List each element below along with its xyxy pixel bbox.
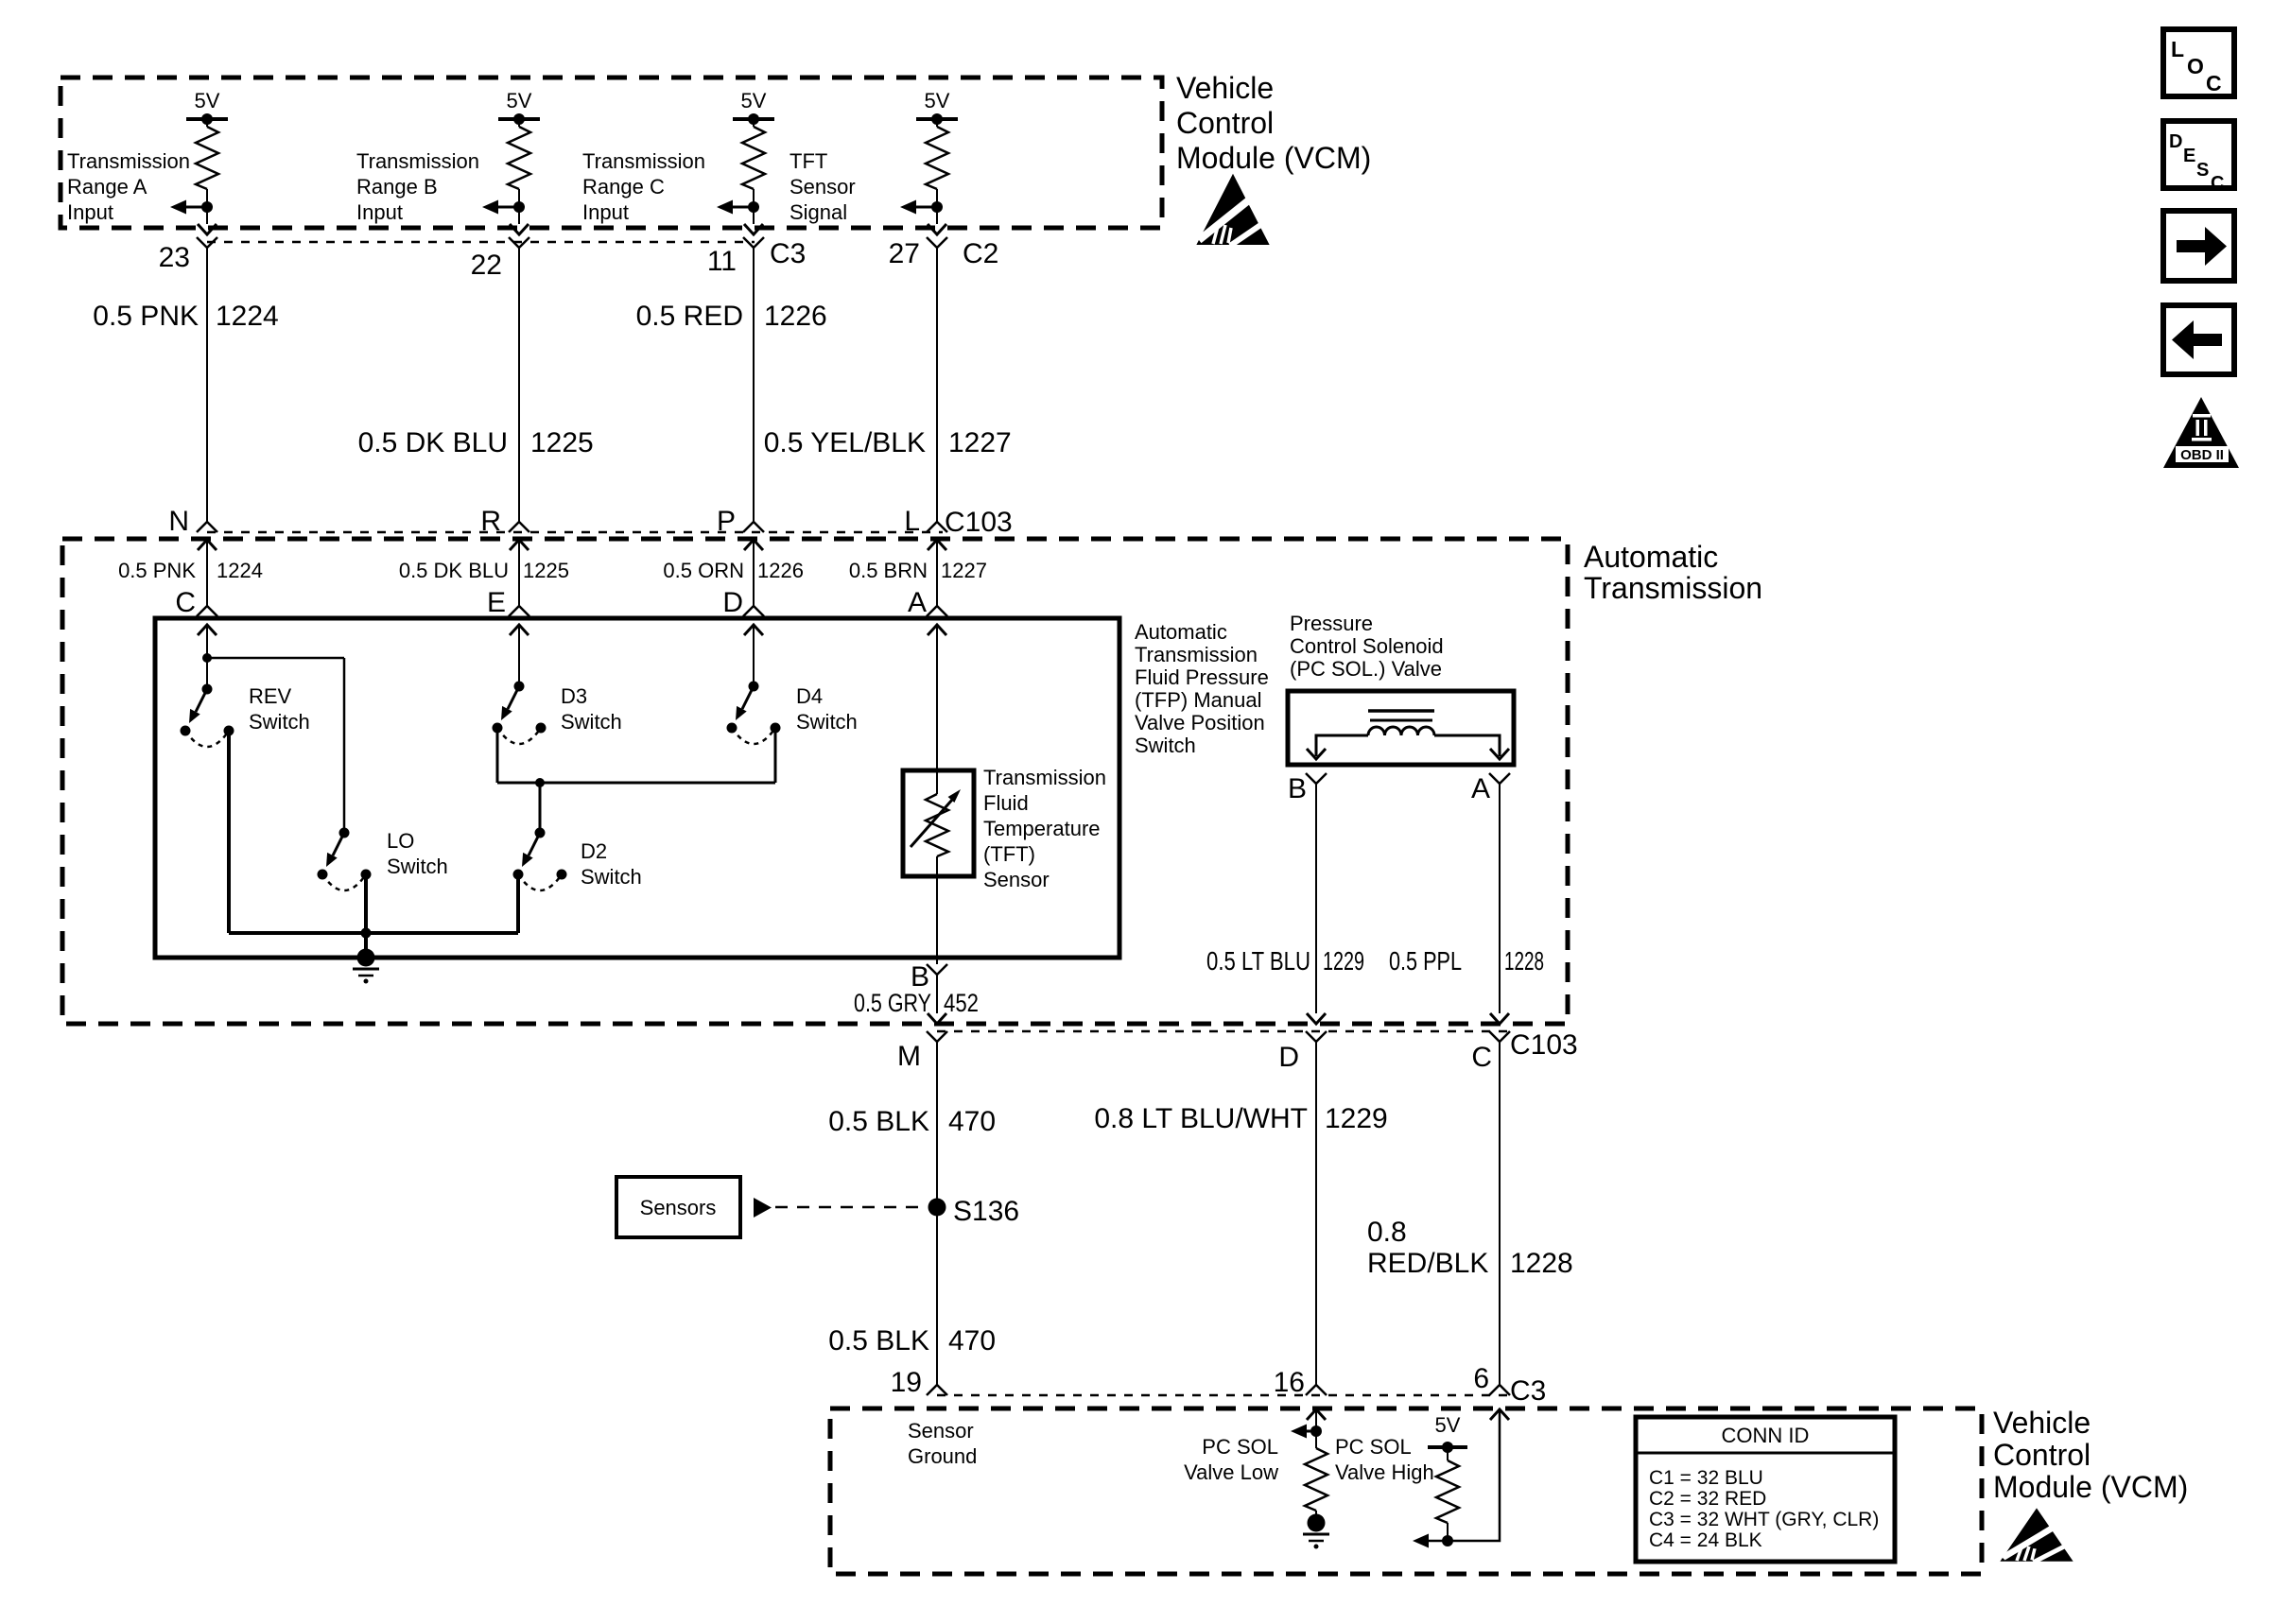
box: TFP manual valve position switch	[155, 618, 1119, 958]
pin 16 fork	[1306, 1385, 1327, 1395]
node: REV/LO feed junction	[202, 653, 212, 663]
svg-text:16: 16	[1274, 1367, 1305, 1398]
wire: 0.5 RED 1226 (VCM 11 to C103 P)	[753, 248, 755, 522]
svg-text:LO: LO	[387, 829, 414, 853]
wire arrow leaving AT at D	[1307, 1013, 1326, 1024]
svg-text:0.5 BRN: 0.5 BRN	[849, 559, 928, 582]
pin N fork	[197, 522, 217, 532]
svg-text:5V: 5V	[1435, 1413, 1461, 1437]
svg-text:Transmission: Transmission	[356, 149, 479, 173]
wire: 0.8 LT BLU/WHT 1229	[1315, 1042, 1317, 1385]
connector line: C103 upper	[207, 531, 943, 534]
svg-text:D: D	[1278, 1042, 1299, 1073]
svg-text:C103: C103	[945, 507, 1013, 538]
switch: D2	[513, 828, 567, 891]
svg-text:D2: D2	[581, 839, 607, 863]
svg-text:Sensor: Sensor	[789, 175, 856, 199]
svg-text:Temperature: Temperature	[983, 817, 1101, 840]
svg-text:Switch: Switch	[249, 710, 310, 734]
resistor: PC SOL valve low load	[1305, 1448, 1327, 1511]
wire: coil left lead	[1316, 735, 1368, 756]
svg-text:470: 470	[948, 1106, 996, 1137]
svg-text:E: E	[2183, 146, 2195, 166]
svg-text:L: L	[2171, 37, 2184, 61]
box: Vehicle Control Module (VCM) bottom	[830, 1408, 1982, 1574]
svg-text:1229: 1229	[1323, 946, 1364, 976]
svg-text:Input: Input	[356, 200, 403, 224]
svg-text:Input: Input	[582, 200, 629, 224]
svg-text:1228: 1228	[1510, 1248, 1573, 1279]
svg-text:0.5 BLK: 0.5 BLK	[828, 1325, 929, 1356]
wire: REV output (right contact to common)	[227, 731, 231, 933]
wire arrow inside TFP at D	[744, 625, 763, 635]
node: D2 feed junction	[535, 778, 545, 787]
pin A fork of PC solenoid	[1489, 773, 1510, 784]
wire: 0.5 BLK 470 upper	[936, 1042, 938, 1199]
svg-text:PC SOL: PC SOL	[1335, 1435, 1412, 1459]
svg-text:N: N	[168, 506, 189, 537]
svg-text:Transmission: Transmission	[983, 766, 1106, 789]
wire: 0.5 PPL 1228	[1499, 784, 1501, 1013]
svg-text:Vehicle: Vehicle	[1993, 1406, 2091, 1440]
svg-text:Fluid Pressure: Fluid Pressure	[1135, 665, 1269, 689]
svg-text:1224: 1224	[216, 301, 279, 332]
svg-text:0.8: 0.8	[1367, 1217, 1407, 1248]
svg-text:C3: C3	[770, 238, 806, 269]
svg-text:1225: 1225	[530, 427, 594, 458]
svg-text:Vehicle: Vehicle	[1176, 71, 1274, 105]
wire: junction to LO feed	[207, 657, 344, 660]
fork at TFP pin C	[197, 606, 217, 616]
pin L fork	[927, 522, 947, 532]
svg-text:0.5 YEL/BLK: 0.5 YEL/BLK	[764, 427, 926, 458]
svg-text:Fluid: Fluid	[983, 791, 1029, 815]
icon: OBD II triangle	[2163, 397, 2239, 468]
svg-text:C: C	[2211, 173, 2224, 194]
wire: D4 right contact up-link	[774, 728, 777, 783]
svg-text:Control: Control	[1993, 1438, 2091, 1472]
svg-text:5V: 5V	[741, 89, 767, 112]
splice: S136	[928, 1199, 946, 1217]
svg-text:Switch: Switch	[581, 865, 642, 889]
svg-text:Transmission: Transmission	[1584, 571, 1762, 605]
svg-text:Valve High: Valve High	[1335, 1460, 1434, 1484]
pin M fork	[927, 1031, 947, 1042]
wire arrow leaving AT at M	[928, 1013, 946, 1024]
svg-text:Switch: Switch	[387, 855, 448, 878]
wire arrow into AT at R	[510, 540, 529, 550]
arrow: sensors branch	[754, 1198, 772, 1218]
pin 6 fork	[1489, 1385, 1510, 1395]
node: common/ground junction	[361, 928, 372, 939]
symbol: ESD sensitivity bottom	[2002, 1510, 2073, 1563]
svg-text:C3 = 32 WHT (GRY, CLR): C3 = 32 WHT (GRY, CLR)	[1649, 1509, 1879, 1530]
wire: 0.5 YEL/BLK 1227 (VCM 27 to C103 L)	[936, 248, 938, 522]
arrow: PC SOL Valve Low signal	[1307, 1430, 1316, 1433]
svg-text:Range C: Range C	[582, 175, 665, 199]
svg-text:R: R	[480, 506, 501, 537]
svg-text:C2: C2	[963, 238, 998, 269]
svg-text:C: C	[175, 587, 196, 618]
svg-text:A: A	[1471, 773, 1490, 804]
svg-text:Control Solenoid: Control Solenoid	[1290, 634, 1444, 658]
svg-text:0.5 BLK: 0.5 BLK	[828, 1106, 929, 1137]
wire: 0.5 GRY 452	[936, 975, 938, 1013]
resistor: VCM pull-up TFT Sensor Signal	[900, 113, 958, 234]
svg-text:D: D	[2169, 131, 2182, 152]
svg-text:Transmission: Transmission	[67, 149, 190, 173]
svg-text:OBD II: OBD II	[2180, 447, 2224, 463]
svg-text:E: E	[487, 587, 506, 618]
svg-text:Valve Low: Valve Low	[1184, 1460, 1278, 1484]
svg-text:O: O	[2187, 54, 2204, 78]
connector line: VCM C2/C3 bottom	[937, 1394, 1507, 1397]
inductor coil: PC solenoid	[1368, 727, 1434, 735]
wire: switch common bus	[229, 931, 518, 935]
switch: LO	[318, 828, 372, 891]
icon: back arrow box	[2163, 305, 2234, 374]
wire: D2 feed drop	[539, 783, 542, 833]
pin 11 connector fork	[743, 237, 764, 248]
thermistor: TFT sensor element	[926, 794, 948, 856]
svg-text:Control: Control	[1176, 106, 1274, 140]
svg-text:470: 470	[948, 1325, 996, 1356]
wire arrow into AT at N	[198, 540, 217, 550]
svg-text:D: D	[722, 587, 743, 618]
wire: 0.5 DK BLU 1225 (VCM 22 to C103 R)	[518, 248, 520, 522]
wire arrow into AT at L	[928, 540, 946, 550]
svg-text:Valve Position: Valve Position	[1135, 711, 1265, 734]
svg-text:L: L	[904, 506, 920, 537]
wire arrow inside TFP at E	[510, 625, 529, 635]
wire arrow into VCM at 16	[1307, 1409, 1326, 1420]
svg-text:1227: 1227	[941, 559, 987, 582]
svg-text:REV: REV	[249, 684, 292, 708]
table: CONN ID	[1636, 1417, 1895, 1562]
svg-text:0.5 RED: 0.5 RED	[636, 301, 743, 332]
box: PC solenoid valve	[1288, 691, 1514, 765]
pin B fork of PC solenoid	[1306, 773, 1327, 784]
svg-text:D4: D4	[796, 684, 823, 708]
svg-text:0.5 PNK: 0.5 PNK	[93, 301, 199, 332]
wire: 0.5 BLK 470 lower	[936, 1216, 938, 1385]
svg-text:Module (VCM): Module (VCM)	[1176, 141, 1371, 175]
svg-text:27: 27	[889, 238, 920, 269]
svg-text:11: 11	[707, 246, 737, 277]
pin 27 connector fork	[927, 237, 947, 248]
wire: 0.8 RED/BLK 1228	[1499, 1042, 1501, 1385]
svg-text:0.5 DK BLU: 0.5 DK BLU	[358, 427, 508, 458]
svg-text:1227: 1227	[948, 427, 1012, 458]
svg-text:22: 22	[471, 250, 502, 281]
svg-text:0.5 DK BLU: 0.5 DK BLU	[399, 559, 509, 582]
wire: LO feed drop	[343, 658, 346, 833]
svg-text:PC SOL: PC SOL	[1202, 1435, 1278, 1459]
pin R fork	[509, 522, 529, 532]
svg-text:0.5 PPL: 0.5 PPL	[1389, 946, 1462, 976]
svg-text:23: 23	[159, 242, 190, 273]
svg-text:P: P	[717, 506, 736, 537]
svg-text:A: A	[908, 587, 927, 618]
svg-text:0.5 LT BLU: 0.5 LT BLU	[1206, 946, 1310, 976]
svg-text:Ground: Ground	[908, 1444, 977, 1468]
wire arrow inside TFP at A	[928, 625, 946, 635]
wire: common to ground	[364, 933, 368, 958]
svg-text:19: 19	[891, 1367, 922, 1398]
switch: D4	[727, 682, 781, 745]
svg-text:Range A: Range A	[67, 175, 147, 199]
wire: dashed branch to S136	[775, 1206, 927, 1209]
fork at TFP pin E	[509, 606, 529, 616]
svg-text:M: M	[897, 1041, 921, 1072]
svg-text:5V: 5V	[195, 89, 220, 112]
svg-text:Transmission: Transmission	[582, 149, 705, 173]
box: Vehicle Control Module (VCM) top	[61, 78, 1162, 228]
svg-text:0.5 ORN: 0.5 ORN	[663, 559, 744, 582]
ground: VCM internal	[1303, 1533, 1329, 1536]
svg-text:Switch: Switch	[561, 710, 622, 734]
svg-text:5V: 5V	[507, 89, 532, 112]
svg-text:Input: Input	[67, 200, 113, 224]
svg-text:Switch: Switch	[1135, 734, 1196, 757]
icon: LOC box	[2163, 29, 2234, 96]
fork at TFP pin D	[743, 606, 764, 616]
resistor: VCM pull-up Transmission Range C	[717, 113, 774, 234]
svg-text:C4 = 24 BLK: C4 = 24 BLK	[1649, 1529, 1762, 1551]
svg-text:Transmission: Transmission	[1135, 643, 1258, 666]
pin D fork (C103 lower)	[1306, 1031, 1327, 1042]
svg-text:0.5 PNK: 0.5 PNK	[118, 559, 196, 582]
svg-text:Sensors: Sensors	[640, 1196, 717, 1219]
svg-text:S: S	[2196, 160, 2209, 181]
pin 22 connector fork	[509, 237, 529, 248]
svg-text:1224: 1224	[217, 559, 263, 582]
box: Automatic Transmission	[62, 539, 1568, 1024]
svg-text:0.8 LT BLU/WHT: 0.8 LT BLU/WHT	[1094, 1103, 1308, 1134]
node: PC SOL valve low junction	[1310, 1425, 1322, 1437]
box: TFT sensor	[903, 770, 974, 876]
resistor: VCM pull-up Transmission Range B	[482, 113, 540, 234]
connector line: C103 lower	[937, 1030, 1507, 1033]
svg-text:C2 = 32 RED: C2 = 32 RED	[1649, 1488, 1766, 1510]
wire: coil right lead	[1434, 735, 1500, 756]
symbol: ESD sensitivity top	[1198, 176, 1269, 246]
svg-text:C1 = 32 BLU: C1 = 32 BLU	[1649, 1467, 1763, 1489]
svg-text:Automatic: Automatic	[1584, 540, 1718, 574]
svg-text:Sensor: Sensor	[908, 1419, 974, 1443]
svg-text:1226: 1226	[757, 559, 804, 582]
wire: 0.5 PNK 1224 (VCM 23 to C103 N)	[206, 248, 208, 522]
pin 23 connector fork	[197, 237, 217, 248]
svg-text:1225: 1225	[523, 559, 569, 582]
wire: D3 left contact down to D4 link	[496, 728, 499, 783]
svg-text:(TFT): (TFT)	[983, 842, 1035, 866]
svg-text:C3: C3	[1510, 1375, 1546, 1407]
ground: TFP switch case	[353, 968, 379, 971]
svg-text:D3: D3	[561, 684, 587, 708]
svg-text:C103: C103	[1510, 1029, 1578, 1061]
svg-text:1228: 1228	[1504, 946, 1544, 976]
pin P fork	[743, 522, 764, 532]
svg-text:0.5 GRY: 0.5 GRY	[854, 989, 931, 1017]
icon: forward arrow box	[2163, 211, 2234, 281]
svg-text:RED/BLK: RED/BLK	[1367, 1248, 1488, 1279]
wire arrow into VCM at 6	[1490, 1409, 1509, 1420]
node: valve high junction	[1442, 1535, 1453, 1546]
arrow: PC SOL valve high signal	[1413, 1534, 1429, 1548]
connector line: VCM C3/C2 top	[207, 241, 755, 244]
resistor: VCM pull-up Transmission Range A	[170, 113, 228, 234]
svg-text:Sensor: Sensor	[983, 868, 1050, 891]
wire arrow inside TFP at C	[198, 625, 217, 635]
inductor core: PC solenoid	[1368, 709, 1434, 713]
svg-text:Pressure: Pressure	[1290, 612, 1373, 635]
svg-text:Switch: Switch	[796, 710, 858, 734]
svg-text:1226: 1226	[764, 301, 827, 332]
wire: 0.5 LT BLU 1229	[1315, 784, 1317, 1013]
svg-text:6: 6	[1473, 1363, 1489, 1394]
svg-text:5V: 5V	[925, 89, 950, 112]
svg-text:(PC SOL.) Valve: (PC SOL.) Valve	[1290, 657, 1442, 681]
svg-text:C: C	[1471, 1042, 1492, 1073]
svg-text:TFT: TFT	[789, 149, 827, 173]
resistor: PC SOL valve high pull-up	[1447, 1447, 1449, 1460]
box: Sensors	[616, 1177, 740, 1237]
switch: D3	[493, 682, 547, 745]
svg-text:S136: S136	[953, 1196, 1019, 1227]
node: ground splice VCM	[1308, 1514, 1326, 1532]
svg-text:452: 452	[944, 989, 979, 1017]
node: ground splice on TFP case	[357, 949, 375, 967]
icon: DESC box	[2163, 121, 2234, 188]
wire: LO output (right contact down)	[364, 874, 368, 933]
svg-text:Module (VCM): Module (VCM)	[1993, 1470, 2188, 1504]
svg-text:Automatic: Automatic	[1135, 620, 1227, 644]
svg-text:(TFP) Manual: (TFP) Manual	[1135, 688, 1261, 712]
svg-text:1229: 1229	[1325, 1103, 1388, 1134]
svg-text:Signal: Signal	[789, 200, 847, 224]
wire: D2 output (left contact down)	[516, 874, 520, 933]
fork at TFP pin A	[927, 606, 947, 616]
pin C fork (C103 lower)	[1489, 1031, 1510, 1042]
power bar: 5V bottom	[1428, 1445, 1467, 1449]
svg-text:CONN ID: CONN ID	[1722, 1424, 1810, 1447]
pin 19 fork	[927, 1385, 947, 1395]
svg-text:Range B: Range B	[356, 175, 438, 199]
svg-text:C: C	[2206, 71, 2222, 95]
switch: REV	[181, 684, 234, 748]
fork at TFP pin B	[927, 964, 947, 975]
wire arrow leaving AT at C	[1490, 1013, 1509, 1024]
wire arrow into AT at P	[744, 540, 763, 550]
wire: D3/D4/D2 link horizontal	[497, 782, 775, 785]
svg-text:B: B	[1288, 773, 1307, 804]
